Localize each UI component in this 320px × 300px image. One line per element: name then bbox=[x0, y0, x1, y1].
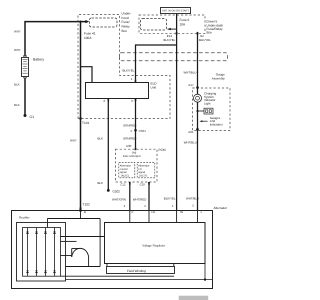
connector A17 bbox=[188, 83, 199, 89]
svg-text:2: 2 bbox=[192, 203, 194, 207]
ground G202 bbox=[107, 189, 120, 193]
fuse F41 (Fuse 41 100A) bbox=[84, 18, 117, 40]
svg-text:BLK: BLK bbox=[98, 181, 104, 185]
ELD unit box bbox=[86, 82, 158, 99]
under-dash fuse/relay box (dashed) bbox=[139, 15, 205, 33]
wire main B+ feed down to alternator bbox=[70, 22, 81, 211]
node junction on battery feed bbox=[79, 21, 81, 23]
svg-text:Fuse 6: Fuse 6 bbox=[180, 18, 190, 22]
svg-text:Indicators: Indicators bbox=[210, 123, 224, 127]
internal ground rails bbox=[61, 264, 213, 280]
charging system indicator light bbox=[194, 92, 217, 106]
svg-text:WHT: WHT bbox=[70, 139, 77, 143]
svg-text:GRN/RED: GRN/RED bbox=[123, 123, 136, 127]
internal stubs from terminals to regulator bbox=[130, 211, 198, 223]
wire W2 gauge feed from under-dash box bbox=[184, 33, 212, 94]
svg-text:A21: A21 bbox=[188, 130, 194, 134]
svg-text:E13: E13 bbox=[167, 34, 173, 38]
svg-text:IG: IG bbox=[180, 210, 183, 214]
svg-text:T102: T102 bbox=[83, 203, 90, 207]
footer label box bbox=[179, 296, 209, 300]
svg-text:PCM: PCM bbox=[159, 148, 166, 152]
HOT IN ON OR START box bbox=[161, 8, 191, 14]
svg-text:1: 1 bbox=[131, 77, 133, 81]
ELD pin 2 bbox=[103, 99, 108, 104]
svg-text:4: 4 bbox=[130, 129, 132, 133]
pin I12 bbox=[198, 32, 205, 38]
gauge assembly box (dashed) bbox=[193, 73, 231, 131]
svg-text:Assembly: Assembly bbox=[212, 77, 226, 81]
PCM alternator control signal block bbox=[119, 162, 135, 178]
svg-text:WHT/BLU: WHT/BLU bbox=[184, 141, 197, 145]
terminal T1 arrow bbox=[85, 20, 89, 23]
svg-text:signal: signal bbox=[138, 171, 145, 174]
connector C334 bbox=[130, 129, 146, 133]
fuse F6 (Fuse 6 10A) bbox=[141, 18, 190, 30]
svg-text:10A: 10A bbox=[180, 23, 187, 27]
wire ELD pin2 to ground bbox=[98, 99, 109, 191]
connector A21 bbox=[188, 128, 199, 134]
wire ELD pin3 to PCM A30 bbox=[123, 99, 136, 148]
svg-text:BLK/YEL: BLK/YEL bbox=[123, 68, 135, 72]
svg-text:Box: Box bbox=[122, 29, 128, 33]
svg-text:(ALTC): (ALTC) bbox=[121, 175, 129, 178]
svg-text:4: 4 bbox=[144, 204, 146, 208]
terminal T101 bbox=[81, 117, 90, 125]
svg-text:Field Winding: Field Winding bbox=[127, 269, 146, 273]
rectifier bus frame bbox=[23, 228, 61, 277]
wire branch to ELD main feed bbox=[81, 67, 93, 83]
svg-text:BLK/YEL: BLK/YEL bbox=[199, 38, 211, 42]
under-hood fuse/relay box (dashed outline) bbox=[78, 15, 228, 119]
PCM pin C12 bbox=[120, 182, 129, 187]
branch arrow to gauges and indicators bbox=[199, 116, 223, 127]
svg-text:signal: signal bbox=[120, 171, 127, 174]
svg-text:Under-: Under- bbox=[122, 11, 132, 15]
voltage regulator box bbox=[105, 223, 206, 264]
svg-text:hood: hood bbox=[122, 16, 129, 20]
svg-text:(ALTF): (ALTF) bbox=[139, 175, 147, 178]
pin A30 bbox=[126, 144, 136, 150]
svg-text:C12: C12 bbox=[120, 183, 126, 187]
svg-text:Rectifier: Rectifier bbox=[19, 216, 30, 220]
PCM alternator FR signal block bbox=[137, 162, 155, 178]
ground G1 bbox=[24, 114, 35, 119]
ELD pin 3 bbox=[131, 99, 136, 104]
wire ALTC to alternator C bbox=[112, 182, 130, 211]
wire W1 fuse6 BLK/YEL down to alternator IG bbox=[164, 14, 177, 211]
svg-text:T101: T101 bbox=[82, 121, 89, 125]
svg-text:WHT/GRN: WHT/GRN bbox=[112, 197, 126, 201]
svg-text:A17: A17 bbox=[188, 83, 194, 87]
diode bridge columns bbox=[28, 228, 55, 277]
svg-text:HOT IN ON OR START: HOT IN ON OR START bbox=[162, 10, 189, 13]
wire rectifier output to regulator bbox=[61, 236, 105, 238]
svg-text:BLK/YEL: BLK/YEL bbox=[164, 197, 176, 201]
svg-text:BLK: BLK bbox=[14, 103, 20, 107]
wire inside gauge bbox=[197, 102, 199, 129]
alternator box bbox=[12, 206, 227, 289]
svg-text:BLK: BLK bbox=[14, 83, 20, 87]
rectifier box bbox=[17, 216, 66, 281]
PCM pin C10 bbox=[140, 182, 149, 187]
battery B1 bbox=[22, 56, 45, 79]
telltale icon bbox=[196, 108, 213, 114]
pin E13 bbox=[167, 32, 177, 38]
svg-text:WHT/RED: WHT/RED bbox=[133, 197, 147, 201]
svg-text:Voltage Regulator: Voltage Regulator bbox=[142, 244, 165, 248]
svg-text:Alternator: Alternator bbox=[214, 206, 227, 210]
svg-text:WHT: WHT bbox=[14, 30, 21, 34]
svg-text:Box: Box bbox=[207, 31, 213, 35]
internal wire B bus bbox=[48, 211, 101, 267]
svg-text:BLK: BLK bbox=[98, 137, 104, 141]
svg-text:1: 1 bbox=[172, 204, 174, 208]
svg-text:B: B bbox=[84, 210, 86, 214]
diodes (8) bbox=[26, 231, 55, 273]
svg-text:I12: I12 bbox=[200, 34, 204, 38]
svg-text:ELD unit input: ELD unit input bbox=[123, 154, 141, 158]
svg-text:Unit: Unit bbox=[151, 85, 157, 89]
PCM box (dashed) bbox=[116, 148, 166, 182]
svg-text:G1: G1 bbox=[30, 115, 35, 119]
svg-text:Relay: Relay bbox=[122, 25, 131, 29]
wire battery negative to ground bbox=[14, 78, 25, 115]
wire W2 gauge to alternator L bbox=[184, 129, 199, 210]
field winding box bbox=[107, 264, 175, 274]
wire ALTF to alternator FR bbox=[133, 182, 149, 211]
ELD pin 1 bbox=[131, 77, 136, 83]
svg-text:WHT/BLU: WHT/BLU bbox=[186, 197, 199, 201]
alternator terminal B bbox=[79, 209, 86, 214]
svg-text:GRN/RED: GRN/RED bbox=[123, 137, 136, 141]
svg-text:Battery: Battery bbox=[33, 57, 44, 61]
svg-text:C: C bbox=[131, 210, 133, 214]
svg-text:FR: FR bbox=[152, 210, 156, 214]
svg-text:Fuse 41: Fuse 41 bbox=[84, 32, 96, 36]
svg-text:Light: Light bbox=[204, 102, 211, 106]
stator winding bbox=[61, 241, 101, 266]
wire battery positive to fuse box bbox=[14, 22, 86, 56]
svg-text:A30: A30 bbox=[126, 144, 132, 148]
wire branch W1 to ELD pin 1 bbox=[123, 45, 177, 80]
svg-text:G202: G202 bbox=[113, 189, 121, 193]
svg-text:100A: 100A bbox=[84, 36, 92, 40]
svg-text:Fuse/: Fuse/ bbox=[122, 20, 130, 24]
terminal T102 bbox=[81, 203, 90, 211]
svg-text:2: 2 bbox=[103, 99, 105, 103]
svg-text:WHT/BLU: WHT/BLU bbox=[184, 71, 197, 75]
svg-text:WHT: WHT bbox=[14, 48, 21, 52]
svg-text:3: 3 bbox=[131, 99, 133, 103]
svg-text:2: 2 bbox=[124, 204, 126, 208]
svg-text:BLK/YEL: BLK/YEL bbox=[164, 38, 176, 42]
junction node bbox=[204, 278, 206, 280]
svg-text:C334: C334 bbox=[139, 129, 147, 133]
svg-text:C10: C10 bbox=[140, 183, 146, 187]
